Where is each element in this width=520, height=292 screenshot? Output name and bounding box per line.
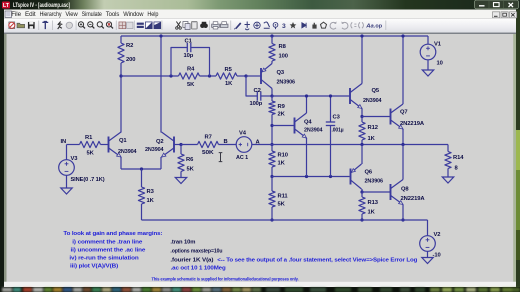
svg-text:R3: R3 [147, 189, 155, 195]
resistor R10 [271, 145, 273, 152]
status bar [4, 282, 516, 287]
wire emitter bowl [121, 168, 161, 170]
svg-text:R11: R11 [278, 194, 289, 200]
wire Q4 emitter down [306, 138, 308, 177]
wire Q4 collector up [306, 96, 308, 113]
svg-text:R14: R14 [453, 155, 464, 161]
svg-text:R4: R4 [187, 67, 195, 73]
ground V3 [61, 188, 72, 194]
svg-text:.options maxstep=10u: .options maxstep=10u [170, 249, 222, 255]
svg-text:3: 3 [282, 23, 286, 30]
svg-text:Q2: Q2 [156, 139, 164, 145]
wire R1 to Q1 base [101, 144, 109, 146]
wire feedback rail to Q6 base [272, 176, 350, 178]
svg-text:AC 1: AC 1 [236, 155, 249, 161]
junction R13 on -10 rail [360, 218, 363, 221]
svg-text:10p: 10p [184, 53, 194, 59]
wire Q6 emitter up to node A rail [361, 145, 363, 165]
svg-text:Help: Help [147, 12, 159, 18]
svg-text:.fourier 1K V(a): .fourier 1K V(a) [170, 258, 213, 264]
junction Q3 collector / C2 / R9 node [270, 94, 273, 97]
svg-text:iv) re-run the simulation: iv) re-run the simulation [69, 256, 139, 262]
voltage source V4 AC 1 [236, 137, 252, 153]
svg-text:Tools: Tools [106, 12, 119, 18]
wire R6 to ground [180, 172, 182, 178]
capacitor C2 [256, 91, 258, 100]
svg-text:Q7: Q7 [400, 109, 408, 115]
svg-text:R7: R7 [205, 135, 212, 141]
svg-text:iii) plot V(A)/V(B): iii) plot V(A)/V(B) [70, 264, 118, 270]
junction R12 / Q6 emitter on node A rail [360, 143, 363, 146]
wire Q3 collector down [271, 89, 273, 97]
wire Q8 base [362, 191, 391, 193]
wire V3 top leg [66, 145, 68, 160]
svg-text:2N2219A: 2N2219A [401, 196, 426, 202]
wire Q2 base to node [174, 144, 181, 146]
svg-text:C2: C2 [254, 88, 261, 94]
transistor Q1 2N3904 [108, 137, 110, 153]
svg-text:200: 200 [126, 57, 135, 63]
wire Q5 emitter to node [361, 109, 363, 117]
svg-text:Q3: Q3 [277, 70, 285, 76]
wire R9 bottom to node A [271, 115, 273, 145]
svg-text:B: B [224, 139, 228, 145]
svg-text:File: File [11, 12, 21, 18]
svg-text:R10: R10 [278, 153, 288, 159]
transistor Q3 2N3906 [260, 68, 262, 84]
wire C2 down leg [246, 76, 257, 96]
wire V1 to ground [427, 60, 429, 70]
wire C1 left leg [171, 48, 187, 77]
svg-text:V4: V4 [239, 131, 247, 137]
svg-text:V3: V3 [71, 156, 79, 162]
wire R8 to Q3 emitter [271, 61, 273, 64]
wire Q1 emitter down [120, 157, 122, 169]
svg-text:5K: 5K [278, 201, 286, 207]
svg-text:ii) uncomment the .ac line: ii) uncomment the .ac line [71, 247, 147, 253]
wire R2 bottom to Q1 collector [120, 63, 122, 133]
svg-text:50K: 50K [202, 150, 215, 156]
svg-text:.op: .op [374, 24, 383, 30]
svg-text:Q4: Q4 [304, 120, 312, 126]
svg-text:5K: 5K [187, 82, 195, 88]
junction C1 left tap [169, 74, 172, 77]
transistor Q2 2N3904 [173, 137, 175, 153]
svg-text:C1: C1 [185, 39, 193, 45]
svg-text:1K: 1K [368, 136, 376, 142]
svg-text:1K: 1K [278, 161, 286, 167]
resistor R2 [118, 43, 124, 63]
taskbar [0, 287, 520, 292]
svg-text:Q1: Q1 [119, 138, 127, 144]
svg-text:Q6: Q6 [365, 169, 373, 175]
resistor R11 [271, 177, 273, 192]
wire base rail y96 to Q5 [272, 95, 350, 97]
svg-text:R1: R1 [85, 135, 93, 141]
svg-text:Edit: Edit [25, 12, 36, 18]
wire R14 drop [447, 145, 449, 152]
junction Q8 emitter on -10 rail [401, 218, 404, 221]
wire R11 bottom [271, 207, 273, 220]
transistor Q6 2N3906 [350, 169, 352, 185]
junction R8 top on rail [270, 34, 273, 37]
wire R14 to ground [447, 169, 449, 178]
svg-text:To look at gain and phase marg: To look at gain and phase margins: [63, 231, 162, 237]
svg-text:View: View [65, 12, 78, 18]
wire R2 top stub [120, 36, 122, 43]
svg-text:Q8: Q8 [401, 187, 409, 193]
app icon LT logo [2, 2, 10, 9]
svg-text:R2: R2 [126, 43, 133, 49]
junction R11 on -10 rail [270, 218, 273, 221]
voltage source V3 [59, 160, 75, 176]
menu bar [4, 10, 516, 19]
ground V1 [422, 70, 433, 76]
svg-text:V1: V1 [434, 41, 442, 47]
svg-text:.001µ: .001µ [332, 128, 344, 134]
svg-text:.ac oct 10 1 100Meg: .ac oct 10 1 100Meg [171, 265, 227, 271]
wire C2 to Q3 collector node [261, 95, 272, 97]
svg-text:SINE(0 .7 1K): SINE(0 .7 1K) [71, 177, 105, 183]
junction Q4 base tap [270, 124, 273, 127]
title bar [0, 0, 520, 10]
svg-text:1K: 1K [225, 81, 233, 87]
junction Q4 emitter on feedback rail [305, 175, 308, 178]
wire C1 right leg [191, 48, 210, 77]
resistor R5 [216, 73, 237, 79]
svg-text:2N3904: 2N3904 [118, 149, 137, 155]
wire Q8 emitter down [402, 205, 404, 221]
svg-text:R5: R5 [225, 67, 233, 73]
svg-text:Hierarchy: Hierarchy [40, 12, 62, 18]
transistor Q5 2N3904 [349, 88, 351, 104]
wire Q7 emitter to node A [402, 129, 404, 145]
wire Q7 base [362, 116, 391, 118]
capacitor C3 [330, 96, 332, 122]
voltage source V2 [420, 236, 436, 252]
wire Q7 collector to top rail [402, 36, 404, 104]
wire V2 to ground [427, 251, 429, 257]
wire IN node [67, 144, 80, 146]
wire +10V top rail [121, 35, 428, 37]
svg-text:<-- To see the output of a .fo: <-- To see the output of a .four stateme… [217, 258, 418, 264]
svg-text:1K: 1K [147, 198, 155, 204]
resistor R14 [445, 152, 451, 169]
capacitor C1 [186, 43, 188, 52]
svg-text:i) comment the .tran line: i) comment the .tran line [72, 239, 143, 245]
wire Q4 base [272, 125, 295, 127]
wire R10 to feedback node [271, 167, 273, 177]
mdi child window buttons [493, 12, 500, 18]
wire Q2 emitter down [160, 157, 162, 169]
svg-text:R9: R9 [278, 104, 286, 110]
ground V2 [422, 258, 433, 264]
-10V bottom rail [142, 219, 428, 221]
svg-text:10: 10 [437, 61, 443, 67]
wire R3 bottom to -10 rail [141, 204, 143, 220]
document icon in menu bar [5, 11, 12, 18]
junction C1 right tap [208, 74, 211, 77]
resistor R8 [269, 44, 275, 62]
svg-text:2N3904: 2N3904 [363, 98, 382, 104]
ground R6 [175, 178, 186, 184]
svg-text:Q5: Q5 [372, 88, 380, 94]
svg-text:C3: C3 [333, 115, 341, 121]
svg-text:100p: 100p [250, 101, 263, 107]
voltage source V1 [427, 36, 429, 44]
junction Q2 collector on top rail [159, 34, 162, 37]
junction Q5 collector on top rail [360, 34, 363, 37]
svg-text:R13: R13 [368, 200, 379, 206]
wire R13 bottom [361, 214, 363, 220]
ground R14 [442, 177, 453, 183]
svg-text:R6: R6 [186, 157, 194, 163]
junction emitters / R3 [140, 167, 143, 170]
resistor R12 [361, 117, 363, 123]
svg-text:2N2219A: 2N2219A [400, 121, 425, 127]
wire Q8 collector up to node A [402, 145, 404, 180]
svg-text:1K: 1K [368, 209, 376, 215]
svg-text:2N3906: 2N3906 [277, 80, 296, 86]
svg-text:Window: Window [123, 12, 144, 18]
svg-text:R12: R12 [368, 125, 378, 131]
svg-text:.tran 10m: .tran 10m [170, 239, 195, 245]
svg-text:2K: 2K [278, 112, 286, 118]
junction Q7 collector on top rail [401, 34, 404, 37]
junction node A on R-chain [270, 143, 273, 146]
junction Q5 emitter / R12 / Q7 base [360, 115, 363, 118]
window frame side bands [4, 34, 7, 282]
svg-text:2N3904: 2N3904 [304, 127, 323, 133]
svg-text:Simulate: Simulate [82, 12, 103, 18]
svg-text:100: 100 [279, 54, 288, 60]
wire R5 to node junction [237, 75, 246, 77]
resistor R3 [138, 187, 144, 204]
junction C3 top on y96 rail [329, 94, 332, 97]
toolbar [4, 17, 516, 19]
svg-text:2N3906: 2N3906 [365, 178, 384, 184]
resistor R9 [271, 96, 273, 101]
wire Q5 collector to top rail [361, 36, 363, 84]
junction C3 bottom on feedback rail [329, 175, 332, 178]
junction R5/C2/Q3 base node [244, 74, 247, 77]
wire R8 top stub [271, 36, 273, 44]
wire R12 bottom to node A rail [361, 140, 363, 145]
svg-text:IN: IN [61, 139, 67, 145]
svg-text:LT: LT [3, 3, 10, 9]
resistor R1 [80, 141, 101, 147]
junction Q7 emitter / Q8 collector on node A [401, 143, 404, 146]
resistor R13 [361, 192, 363, 197]
node A output rail [252, 144, 448, 146]
wire R3 top [141, 169, 143, 187]
svg-text:R8: R8 [279, 44, 287, 50]
transistor Q4 2N3904 [294, 118, 296, 134]
svg-text:5K: 5K [187, 167, 195, 173]
resistor R7 [198, 141, 219, 147]
junction feedback node [270, 175, 273, 178]
node junction R2/R4 tap [119, 74, 122, 77]
wire V3 to ground [66, 175, 68, 188]
wire node B segment [181, 144, 198, 146]
svg-text:LTspice IV - [audioamp.asc]: LTspice IV - [audioamp.asc] [13, 3, 70, 9]
svg-text:This example schematic is supp: This example schematic is supplied for i… [152, 276, 299, 281]
resistor R4 [179, 73, 200, 79]
text cursor I-beam [219, 153, 223, 162]
transistor Q7 2N2219A [390, 109, 392, 125]
resistor R6 [180, 145, 182, 155]
wire Q2 collector to top rail [160, 36, 162, 133]
wire Q3 base [246, 75, 261, 77]
junction Q2 base / R6 / R7 [179, 143, 182, 146]
junction Q4 collector on y96 rail [305, 94, 308, 97]
window buttons minimize maximize close [475, 0, 519, 9]
wire R7 to V4 [219, 144, 237, 146]
wire Q6 collector down [361, 189, 363, 192]
wire V2 drop [427, 220, 429, 236]
svg-text:5K: 5K [87, 150, 95, 156]
svg-text:V2: V2 [434, 232, 441, 238]
svg-text:2N3904: 2N3904 [145, 147, 164, 153]
wire R4-R5 mid segment [200, 75, 217, 77]
toolbar icons [38, 21, 40, 31]
transistor Q8 2N2219A [390, 184, 392, 200]
junction Q6 collector / R13 / Q8 base [360, 190, 363, 193]
wire R4 rail left segment [121, 75, 179, 77]
